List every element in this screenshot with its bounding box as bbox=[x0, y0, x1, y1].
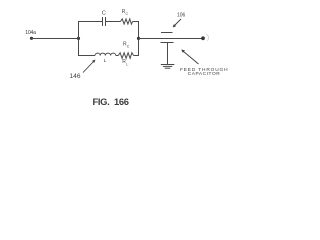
svg-text:C: C bbox=[127, 45, 130, 49]
feed-through capacitor plates bbox=[161, 33, 174, 43]
leader arrow 106 bbox=[173, 19, 181, 28]
wire bottom branch right segment bbox=[134, 55, 139, 57]
svg-text:L: L bbox=[126, 63, 128, 67]
wire top branch right segment bbox=[133, 21, 139, 23]
node right junction dot bbox=[137, 37, 140, 40]
wire left vertical of tank bbox=[78, 21, 80, 56]
svg-text:C: C bbox=[102, 10, 106, 16]
wire output from tank to feed-through bbox=[139, 38, 204, 40]
wire top branch left segment bbox=[78, 21, 103, 23]
svg-text:106: 106 bbox=[177, 12, 186, 18]
wire right vertical of tank bbox=[138, 21, 140, 56]
ground bbox=[161, 65, 175, 69]
wire bottom branch left segment bbox=[78, 55, 95, 57]
leader arrow 146 bbox=[83, 60, 96, 73]
capacitor C bbox=[103, 17, 106, 26]
svg-text:L: L bbox=[104, 58, 107, 64]
resistor RL (bottom) bbox=[118, 53, 133, 59]
resistor RC (top) bbox=[121, 19, 133, 24]
leader arrow FEED THROUGH CAPACITOR bbox=[181, 50, 198, 65]
wire input from 104a to left junction bbox=[32, 38, 80, 40]
node output end dot bbox=[201, 36, 205, 40]
svg-text:FIG.: FIG. bbox=[93, 96, 110, 107]
svg-text:166: 166 bbox=[114, 96, 129, 107]
svg-text:CAPACITOR: CAPACITOR bbox=[188, 71, 221, 77]
node left junction dot bbox=[77, 37, 80, 40]
wire feed-through stem to ground bbox=[167, 43, 169, 65]
svg-text:C: C bbox=[126, 12, 129, 16]
wire bottom branch mid segment bbox=[116, 55, 119, 57]
svg-text:104a: 104a bbox=[25, 30, 36, 36]
inductor L bbox=[95, 53, 116, 55]
node 104a terminal dot bbox=[30, 37, 33, 40]
wire top branch mid segment bbox=[106, 21, 121, 23]
ghost arc near output dot bbox=[206, 34, 209, 41]
svg-text:146: 146 bbox=[70, 73, 81, 80]
